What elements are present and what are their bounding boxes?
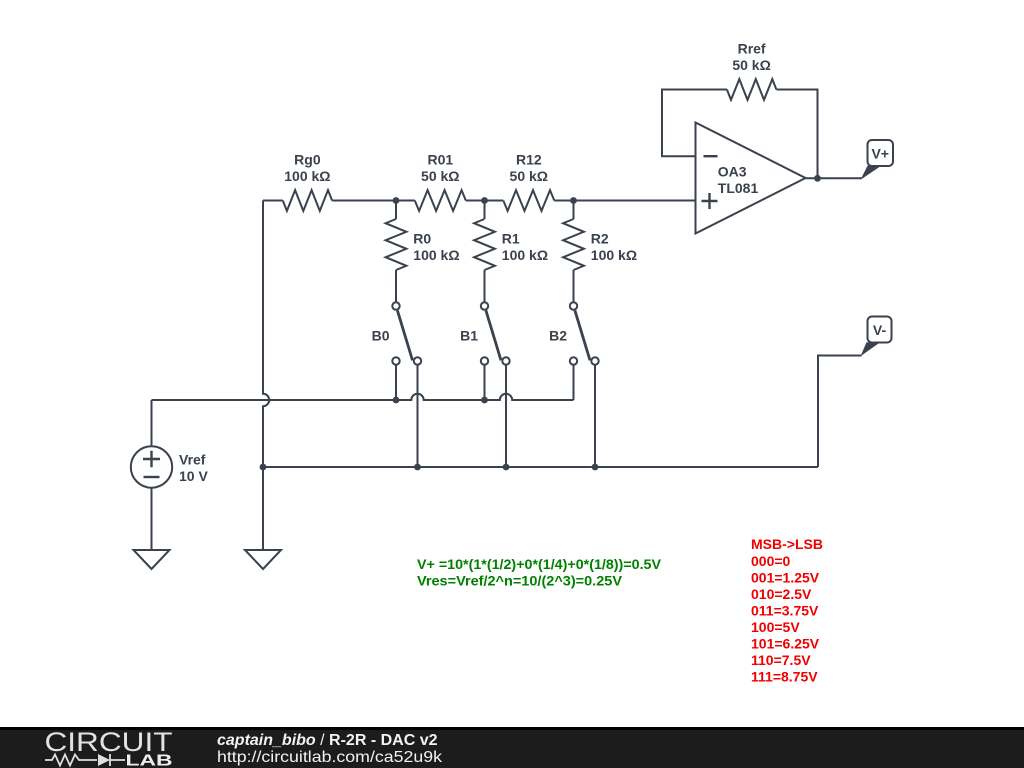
node B junction (481, 197, 488, 204)
svg-text:011=3.75V: 011=3.75V (751, 602, 819, 618)
switch B0 (392, 302, 399, 309)
resistor R2 (563, 219, 584, 270)
svg-text:R0: R0 (413, 231, 431, 247)
svg-text:B2: B2 (549, 328, 567, 344)
voltage source Vref (131, 446, 172, 487)
svg-text:B0: B0 (372, 328, 390, 344)
svg-text:V+: V+ (871, 146, 889, 162)
wire B0 right throw down to ground bus (417, 365, 419, 467)
wire left ground branch vertical (263, 201, 269, 551)
resistor R1 (474, 219, 495, 270)
svg-text:10 V: 10 V (179, 468, 208, 484)
svg-text:101=6.25V: 101=6.25V (751, 636, 820, 652)
svg-text:100=5V: 100=5V (751, 619, 800, 635)
svg-text:R12: R12 (516, 152, 542, 168)
resistor R01 (415, 190, 466, 211)
svg-text:100 kΩ: 100 kΩ (502, 247, 548, 263)
op-amp OA3 (696, 123, 806, 234)
svg-text:000=0: 000=0 (751, 553, 791, 569)
resistor R0 (386, 219, 407, 270)
svg-text:Rg0: Rg0 (294, 152, 321, 168)
svg-text:R01: R01 (427, 152, 453, 168)
svg-text:50 kΩ: 50 kΩ (421, 168, 459, 184)
flag V+ (861, 166, 881, 180)
wire node to R0 (395, 201, 397, 220)
svg-text:captain_bibo / R-2R - DAC v2: captain_bibo / R-2R - DAC v2 (217, 732, 438, 749)
wire node to R2 (573, 201, 575, 220)
wire B1 left throw stub (484, 365, 486, 400)
svg-text:OA3: OA3 (718, 164, 747, 180)
footer bar (0, 727, 1024, 768)
wire ground bus (263, 466, 818, 468)
svg-text:LAB: LAB (126, 753, 173, 768)
wire Vref+ stub (151, 400, 153, 446)
ground (ladder termination) (245, 550, 281, 569)
svg-text:110=7.5V: 110=7.5V (751, 652, 811, 668)
ground (Vref) (134, 550, 170, 569)
wire B1 right throw down to ground bus (505, 365, 507, 467)
wire B2 left throw stub (573, 365, 575, 400)
resistor Rg0 (283, 190, 332, 211)
wire B2 right throw down to ground bus (594, 365, 596, 467)
switch B2 (570, 302, 577, 309)
wire R1 to switch B1 (484, 270, 486, 302)
wire Vref bus with hops (152, 394, 574, 400)
switch B1 (481, 302, 488, 309)
svg-text:TL081: TL081 (718, 180, 759, 196)
resistor R12 (503, 190, 554, 211)
svg-text:Vref: Vref (179, 452, 206, 468)
svg-text:50 kΩ: 50 kΩ (732, 57, 770, 73)
wire inverting input (662, 90, 727, 157)
svg-text:100 kΩ: 100 kΩ (284, 168, 330, 184)
svg-text:V+ =10*(1*(1/2)+0*(1/4)+0*(1/8: V+ =10*(1*(1/2)+0*(1/4)+0*(1/8))=0.5V (417, 556, 662, 572)
logo resistor-diode glyph (45, 755, 97, 766)
resistor Rref (727, 79, 777, 100)
svg-text:R1: R1 (502, 231, 520, 247)
wire B0 left throw stub (395, 365, 397, 400)
wire R0 to switch B0 (395, 270, 397, 302)
svg-text:Rref: Rref (738, 41, 766, 57)
wire feedback right (776, 90, 817, 179)
svg-text:Vres=Vref/2^n=10/(2^3)=0.25V: Vres=Vref/2^n=10/(2^3)=0.25V (417, 573, 623, 589)
node A junction (393, 197, 400, 204)
flag V- (861, 342, 880, 356)
wire Vref to ground (151, 489, 153, 551)
svg-text:010=2.5V: 010=2.5V (751, 586, 812, 602)
wire R2 to switch B2 (573, 270, 575, 302)
svg-text:100 kΩ: 100 kΩ (591, 247, 637, 263)
svg-text:50 kΩ: 50 kΩ (510, 168, 548, 184)
svg-text:MSB->LSB: MSB->LSB (751, 536, 823, 552)
wire V- riser (818, 356, 862, 468)
svg-text:111=8.75V: 111=8.75V (751, 669, 818, 685)
svg-text:B1: B1 (460, 328, 478, 344)
svg-text:R2: R2 (591, 231, 609, 247)
svg-text:100 kΩ: 100 kΩ (413, 247, 459, 263)
svg-text:001=1.25V: 001=1.25V (751, 569, 820, 585)
node C junction (570, 197, 577, 204)
wire output (806, 177, 862, 179)
wire node to R1 (484, 201, 486, 220)
wire main horizontal rail (263, 200, 283, 202)
svg-text:V-: V- (873, 322, 887, 338)
svg-text:http://circuitlab.com/ca52u9k: http://circuitlab.com/ca52u9k (217, 749, 443, 766)
